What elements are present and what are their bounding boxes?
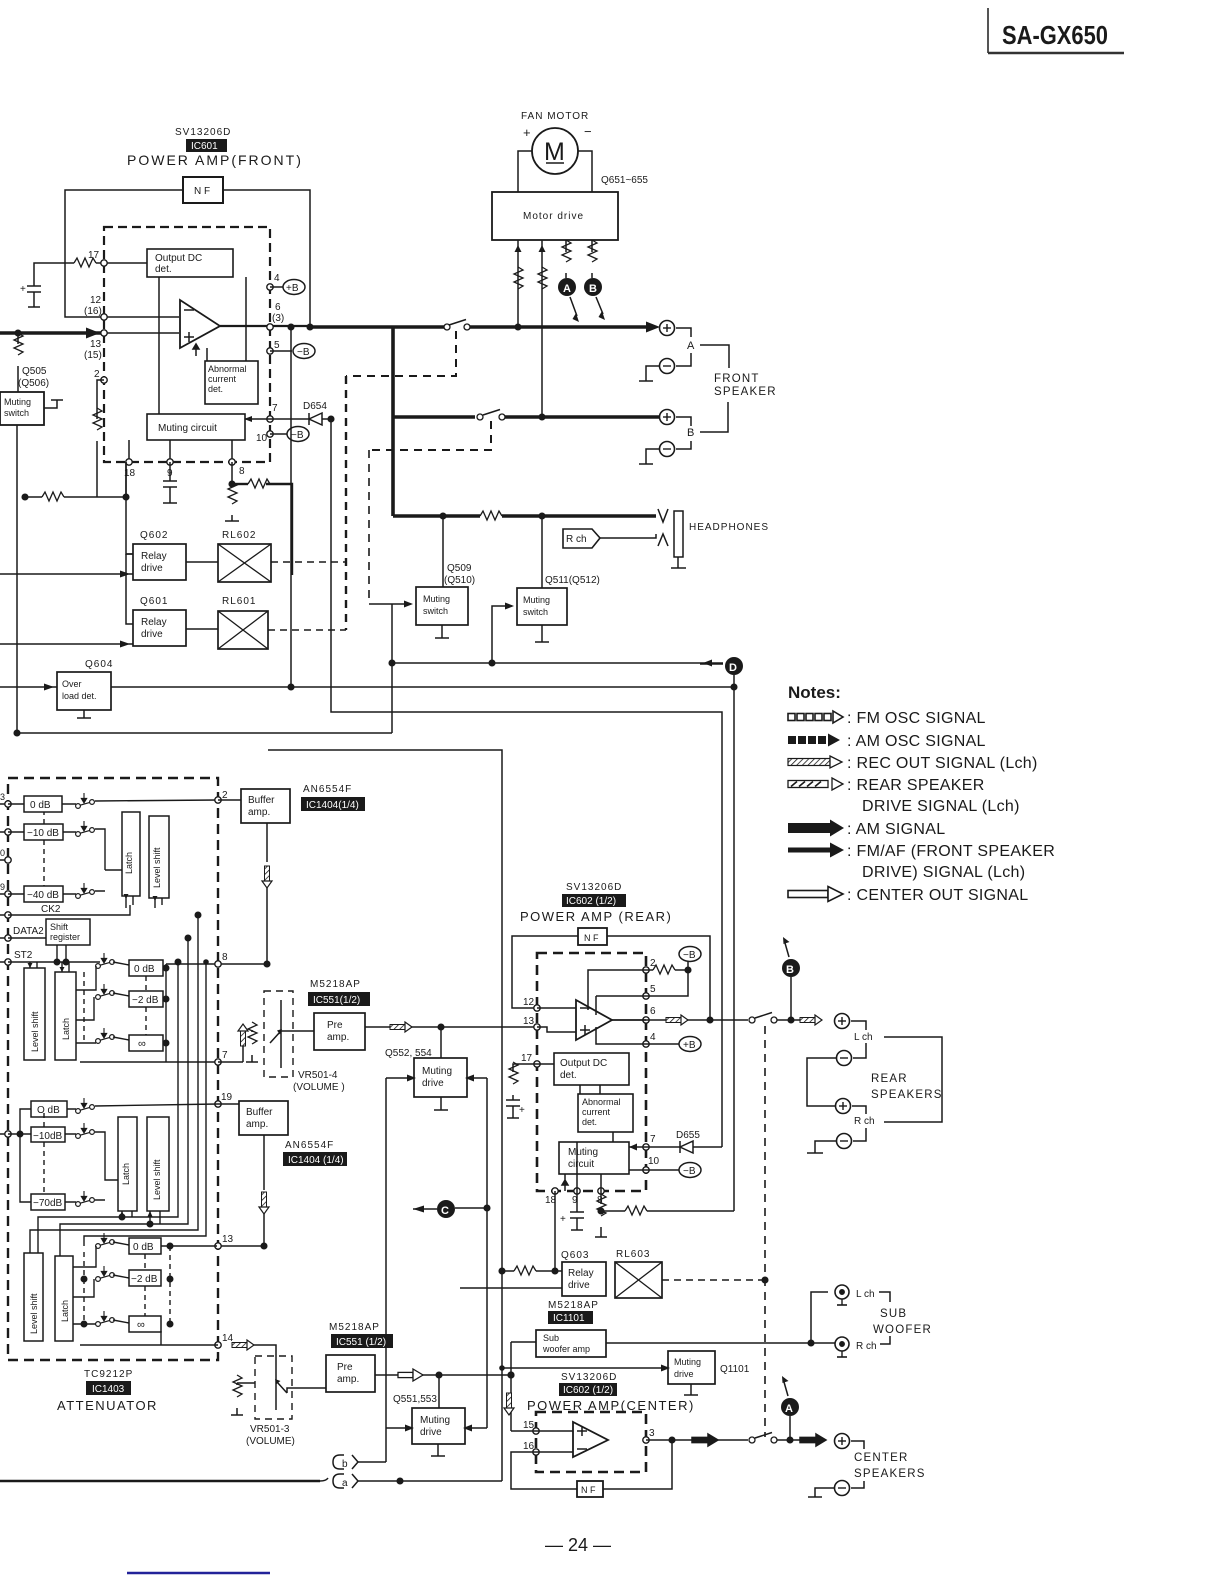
svg-text:det.: det. xyxy=(155,264,172,275)
svg-text:Output DC: Output DC xyxy=(155,253,202,264)
svg-text:Motor drive: Motor drive xyxy=(523,211,584,222)
svg-text:−70dB: −70dB xyxy=(33,1198,63,1209)
svg-text:DATA2: DATA2 xyxy=(13,926,44,937)
svg-text:+: + xyxy=(20,284,26,295)
svg-text:FAN MOTOR: FAN MOTOR xyxy=(521,111,589,122)
svg-text:Pre: Pre xyxy=(337,1362,353,1373)
svg-text:Level shift: Level shift xyxy=(29,1293,39,1334)
svg-text:Buffer: Buffer xyxy=(246,1107,273,1118)
svg-text:Output DC: Output DC xyxy=(560,1058,607,1069)
svg-text:+B: +B xyxy=(286,283,299,294)
svg-text:10: 10 xyxy=(256,433,268,444)
svg-text:Level shift: Level shift xyxy=(152,847,162,888)
svg-text:(VOLUME): (VOLUME) xyxy=(246,1436,295,1447)
svg-text:SV13206D: SV13206D xyxy=(561,1372,617,1383)
svg-text:Latch: Latch xyxy=(121,1163,131,1185)
svg-text:Q505: Q505 xyxy=(22,366,47,377)
svg-text:SPEAKERS: SPEAKERS xyxy=(854,1468,926,1480)
svg-text:Abnormal: Abnormal xyxy=(582,1097,621,1107)
svg-text:(16): (16) xyxy=(84,306,102,317)
svg-text:16: 16 xyxy=(523,1441,535,1452)
svg-text:Latch: Latch xyxy=(61,1018,71,1040)
svg-text:RL601: RL601 xyxy=(222,596,256,607)
svg-text:+: + xyxy=(560,1214,566,1225)
svg-text:drive: drive xyxy=(674,1369,694,1379)
svg-text:a: a xyxy=(342,1478,348,1489)
svg-text:N F: N F xyxy=(581,1485,596,1495)
svg-text:AN6554F: AN6554F xyxy=(303,784,352,795)
svg-text:7: 7 xyxy=(272,403,278,414)
svg-text:Muting: Muting xyxy=(674,1357,701,1367)
svg-text:8: 8 xyxy=(239,466,245,477)
svg-text:M5218AP: M5218AP xyxy=(329,1322,380,1333)
svg-text:Relay: Relay xyxy=(141,551,167,562)
svg-text:Sub: Sub xyxy=(543,1333,559,1343)
svg-text:Q603: Q603 xyxy=(561,1250,589,1261)
svg-text:∞: ∞ xyxy=(137,1319,145,1331)
svg-text:Relay: Relay xyxy=(141,617,167,628)
svg-text:current: current xyxy=(208,374,237,384)
svg-text:ATTENUATOR: ATTENUATOR xyxy=(57,1398,158,1413)
svg-text:Q1101: Q1101 xyxy=(720,1364,750,1375)
svg-text:4: 4 xyxy=(274,273,280,284)
svg-text:M5218AP: M5218AP xyxy=(310,979,361,990)
svg-text:13: 13 xyxy=(523,1016,535,1027)
svg-text:3: 3 xyxy=(0,792,5,802)
svg-text:b: b xyxy=(342,1459,348,1470)
svg-text:D655: D655 xyxy=(676,1130,700,1141)
svg-text:: AM SIGNAL: : AM SIGNAL xyxy=(847,821,945,838)
svg-text:amp.: amp. xyxy=(246,1119,268,1130)
svg-text:N F: N F xyxy=(584,933,599,943)
svg-text:A: A xyxy=(785,1403,793,1415)
svg-text:7: 7 xyxy=(650,1134,656,1145)
svg-text:A: A xyxy=(563,283,571,295)
svg-text:+: + xyxy=(519,1105,525,1116)
svg-text:VR501-4: VR501-4 xyxy=(298,1070,338,1081)
svg-text:−10dB: −10dB xyxy=(33,1131,63,1142)
svg-text:(Q506): (Q506) xyxy=(18,378,49,389)
svg-text:Muting: Muting xyxy=(423,594,450,604)
svg-text:det.: det. xyxy=(208,384,223,394)
svg-text:RL602: RL602 xyxy=(222,530,256,541)
svg-text:AN6554F: AN6554F xyxy=(285,1140,334,1151)
svg-text:IC551(1/2): IC551(1/2) xyxy=(313,995,360,1006)
svg-text:POWER AMP (REAR): POWER AMP (REAR) xyxy=(520,909,672,924)
svg-text:B: B xyxy=(589,283,597,295)
svg-text:13: 13 xyxy=(90,339,102,350)
svg-text:CENTER: CENTER xyxy=(854,1452,908,1464)
svg-text:Muting: Muting xyxy=(420,1415,450,1426)
svg-text:switch: switch xyxy=(4,408,29,418)
svg-text:19: 19 xyxy=(221,1092,233,1103)
svg-text:C: C xyxy=(441,1205,449,1217)
svg-text:drive: drive xyxy=(141,629,163,640)
svg-text:R ch: R ch xyxy=(566,534,587,545)
svg-text:4: 4 xyxy=(650,1032,656,1043)
svg-text:: REC OUT SIGNAL (Lch): : REC OUT SIGNAL (Lch) xyxy=(847,755,1038,772)
svg-text:17: 17 xyxy=(521,1053,533,1064)
svg-text:Level shift: Level shift xyxy=(152,1159,162,1200)
svg-text:IC601: IC601 xyxy=(191,141,218,152)
svg-text:+: + xyxy=(523,125,531,140)
svg-text:: REAR SPEAKER: : REAR SPEAKER xyxy=(847,777,985,794)
svg-text:Relay: Relay xyxy=(568,1268,594,1279)
svg-text:IC1404 (1/4): IC1404 (1/4) xyxy=(288,1155,344,1166)
svg-text:IC602 (1/2): IC602 (1/2) xyxy=(563,1385,613,1396)
svg-text:R ch: R ch xyxy=(854,1116,875,1127)
svg-text:10: 10 xyxy=(648,1156,660,1167)
svg-text:D654: D654 xyxy=(303,401,327,412)
svg-text:0 dB: 0 dB xyxy=(30,800,51,811)
svg-text:WOOFER: WOOFER xyxy=(873,1324,932,1336)
svg-text:2: 2 xyxy=(94,369,100,380)
svg-text:TC9212P: TC9212P xyxy=(84,1369,133,1380)
svg-text:12: 12 xyxy=(90,295,102,306)
svg-text:RL603: RL603 xyxy=(616,1249,650,1260)
svg-text:Muting: Muting xyxy=(523,595,550,605)
svg-text:SPEAKER: SPEAKER xyxy=(714,386,777,398)
svg-text:amp.: amp. xyxy=(327,1032,349,1043)
svg-text:Q511(Q512): Q511(Q512) xyxy=(545,575,600,586)
svg-text:HEADPHONES: HEADPHONES xyxy=(689,522,769,533)
svg-text:IC1101: IC1101 xyxy=(553,1313,585,1324)
svg-text:drive: drive xyxy=(568,1280,590,1291)
svg-text:0: 0 xyxy=(0,848,5,858)
svg-text:−2 dB: −2 dB xyxy=(132,995,159,1006)
svg-text:Q509: Q509 xyxy=(447,563,472,574)
svg-text:−B: −B xyxy=(291,430,304,441)
svg-text:(3): (3) xyxy=(272,313,284,324)
svg-text:drive: drive xyxy=(422,1078,444,1089)
svg-text:Shift: Shift xyxy=(50,922,69,932)
svg-text:L ch: L ch xyxy=(854,1032,873,1043)
svg-text:SV13206D: SV13206D xyxy=(566,882,622,893)
svg-text:drive: drive xyxy=(420,1427,442,1438)
svg-text:SPEAKERS: SPEAKERS xyxy=(871,1089,943,1101)
svg-text:Pre: Pre xyxy=(327,1020,343,1031)
svg-text:load det.: load det. xyxy=(62,691,97,701)
svg-text:0 dB: 0 dB xyxy=(134,964,155,975)
svg-text:Muting: Muting xyxy=(4,397,31,407)
svg-text:det.: det. xyxy=(560,1070,577,1081)
svg-text:IC551 (1/2): IC551 (1/2) xyxy=(336,1337,386,1348)
svg-text:circuit: circuit xyxy=(568,1159,594,1170)
svg-text:−B: −B xyxy=(683,1166,696,1177)
svg-text:−B: −B xyxy=(297,347,310,358)
svg-text:−B: −B xyxy=(683,950,696,961)
svg-text:+B: +B xyxy=(683,1040,696,1051)
svg-text:: AM OSC SIGNAL: : AM OSC SIGNAL xyxy=(847,733,986,750)
svg-text:−10 dB: −10 dB xyxy=(27,828,59,839)
svg-text:A: A xyxy=(687,340,695,352)
svg-text:amp.: amp. xyxy=(337,1374,359,1385)
svg-text:: FM/AF (FRONT SPEAKER: : FM/AF (FRONT SPEAKER xyxy=(847,843,1055,860)
svg-text:ST2: ST2 xyxy=(14,950,33,961)
svg-text:Q651~655: Q651~655 xyxy=(601,175,648,186)
svg-text:IC1404(1/4): IC1404(1/4) xyxy=(306,800,359,811)
svg-text:13: 13 xyxy=(222,1234,234,1245)
svg-text:(Q510): (Q510) xyxy=(444,575,475,586)
svg-text:Muting circuit: Muting circuit xyxy=(158,423,217,434)
svg-text:CK2: CK2 xyxy=(41,904,61,915)
svg-text:IC1403: IC1403 xyxy=(92,1384,125,1395)
svg-text:L ch: L ch xyxy=(856,1289,875,1300)
svg-text:REAR: REAR xyxy=(871,1073,908,1085)
svg-text:DRIVE) SIGNAL (Lch): DRIVE) SIGNAL (Lch) xyxy=(862,864,1025,881)
svg-text:— 24 —: — 24 — xyxy=(545,1535,611,1555)
svg-text:det.: det. xyxy=(582,1117,597,1127)
svg-text:woofer amp: woofer amp xyxy=(542,1344,590,1354)
svg-text:N F: N F xyxy=(194,186,210,197)
svg-text:5: 5 xyxy=(650,984,656,995)
svg-text:Q551,553: Q551,553 xyxy=(393,1394,437,1405)
svg-text:SUB: SUB xyxy=(880,1308,907,1320)
svg-text:Q601: Q601 xyxy=(140,596,168,607)
svg-text:SV13206D: SV13206D xyxy=(175,127,231,138)
svg-text:(15): (15) xyxy=(84,350,102,361)
svg-text:3: 3 xyxy=(649,1428,655,1439)
svg-text:Level shift: Level shift xyxy=(30,1011,40,1052)
svg-text:Abnormal: Abnormal xyxy=(208,364,247,374)
svg-text:DRIVE SIGNAL (Lch): DRIVE SIGNAL (Lch) xyxy=(862,798,1020,815)
svg-text:−40 dB: −40 dB xyxy=(27,890,59,901)
svg-text:M: M xyxy=(544,138,565,166)
svg-text:6: 6 xyxy=(650,1006,656,1017)
svg-text:−2 dB: −2 dB xyxy=(131,1274,158,1285)
svg-text:9: 9 xyxy=(0,882,5,892)
svg-text:switch: switch xyxy=(423,606,448,616)
svg-text:VR501-3: VR501-3 xyxy=(250,1424,290,1435)
svg-text:IC602 (1/2): IC602 (1/2) xyxy=(566,896,616,907)
svg-text:17: 17 xyxy=(88,250,100,261)
svg-text:D: D xyxy=(729,662,737,674)
svg-text:Q604: Q604 xyxy=(85,659,113,670)
svg-text:B: B xyxy=(687,427,694,439)
svg-text:Over: Over xyxy=(62,679,82,689)
svg-text:: FM OSC SIGNAL: : FM OSC SIGNAL xyxy=(847,710,986,727)
svg-text:Notes:: Notes: xyxy=(788,683,841,702)
svg-text:R ch: R ch xyxy=(856,1341,877,1352)
svg-text:Latch: Latch xyxy=(60,1300,70,1322)
svg-text:M5218AP: M5218AP xyxy=(548,1300,599,1311)
svg-text:Muting: Muting xyxy=(568,1147,598,1158)
svg-text:register: register xyxy=(50,932,80,942)
svg-text:FRONT: FRONT xyxy=(714,373,760,385)
svg-text:7: 7 xyxy=(222,1050,228,1061)
svg-text:Muting: Muting xyxy=(422,1066,452,1077)
svg-text:SA-GX650: SA-GX650 xyxy=(1002,20,1108,50)
svg-text:B: B xyxy=(786,964,794,976)
svg-text:current: current xyxy=(582,1107,611,1117)
svg-text:O dB: O dB xyxy=(37,1105,60,1116)
svg-text:amp.: amp. xyxy=(248,807,270,818)
svg-text:15: 15 xyxy=(523,1420,535,1431)
svg-text:0 dB: 0 dB xyxy=(133,1242,154,1253)
svg-text:6: 6 xyxy=(275,302,281,313)
svg-text:Buffer: Buffer xyxy=(248,795,275,806)
svg-text:POWER AMP(FRONT): POWER AMP(FRONT) xyxy=(127,152,303,168)
svg-text:switch: switch xyxy=(523,607,548,617)
svg-text:5: 5 xyxy=(274,340,280,351)
svg-text:12: 12 xyxy=(523,997,535,1008)
svg-text:8: 8 xyxy=(222,952,228,963)
svg-text:Latch: Latch xyxy=(124,852,134,874)
svg-text:Q602: Q602 xyxy=(140,530,168,541)
svg-text:drive: drive xyxy=(141,563,163,574)
svg-text:−: − xyxy=(584,124,592,139)
svg-text:∞: ∞ xyxy=(138,1038,146,1050)
svg-text:: CENTER OUT SIGNAL: : CENTER OUT SIGNAL xyxy=(847,887,1028,904)
svg-text:(VOLUME ): (VOLUME ) xyxy=(293,1082,345,1093)
